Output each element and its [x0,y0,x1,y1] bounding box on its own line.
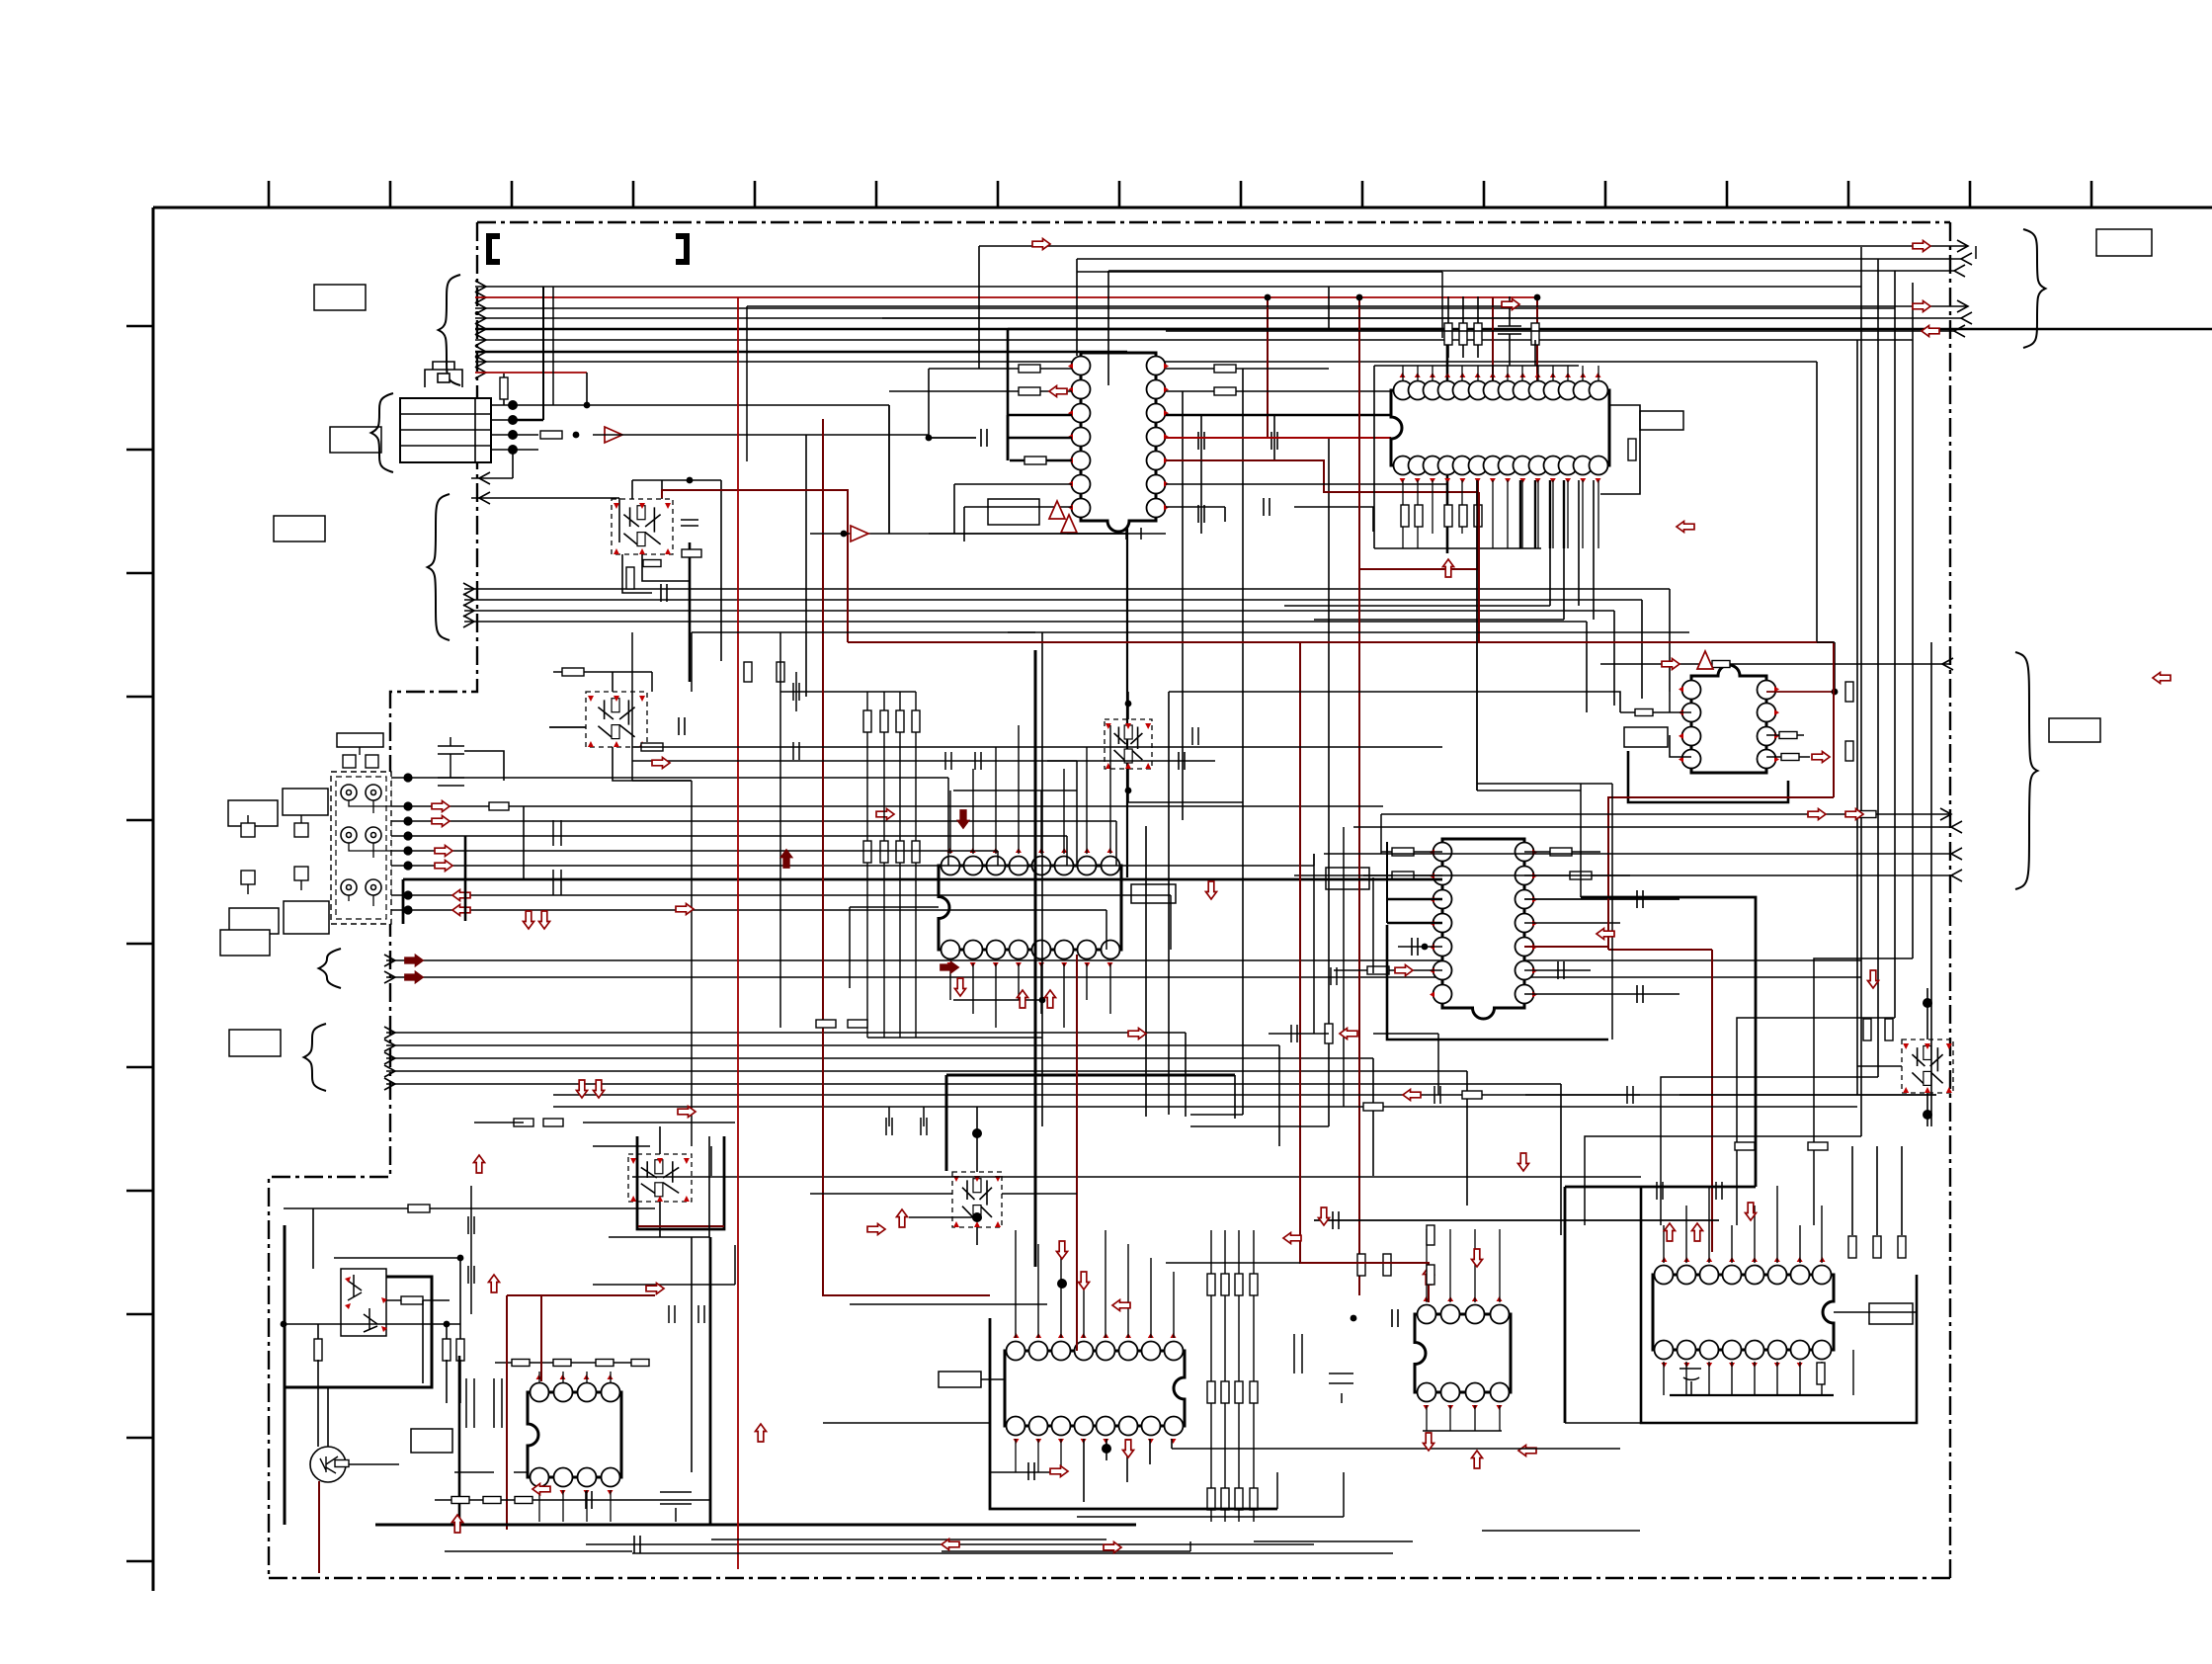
ruler ticks top [269,181,2091,208]
signal arrow [1443,559,1454,577]
wire [990,1471,1062,1473]
resistor [1444,323,1452,345]
connector arrow [1957,300,1968,312]
wire [464,621,1587,623]
signal arrow [1518,1153,1529,1171]
bold center vertical [1034,650,1037,1267]
wire [780,691,916,693]
IC U1 pins [1072,357,1166,518]
wire [1018,963,1020,1000]
buffer arrow [851,526,868,541]
wire [391,865,1314,867]
wire [1334,969,1442,971]
wire [1567,480,1569,548]
junction [403,801,412,810]
wire [495,1362,647,1364]
connector arrow [475,302,486,314]
wire [1477,480,1479,548]
wire [513,419,543,421]
resistor [626,567,634,589]
label box [1131,884,1176,903]
signal arrow [2153,673,2171,684]
capacitor [1028,1462,1034,1480]
wire [1582,480,1584,548]
junction [403,816,412,825]
cap col [553,820,561,895]
Q13 pin ticks [345,1277,387,1332]
wire [1426,1229,1428,1302]
capacitor [1333,1211,1339,1229]
Q1 wiring [642,554,690,581]
junction [1351,1315,1357,1322]
signal arrow [594,1080,605,1098]
signal arrow [1079,1272,1090,1290]
wire [1242,369,1244,1115]
signal arrow [958,810,969,828]
wire [1152,760,1215,762]
op-amp/IC U3 body [1691,665,1766,773]
wire return1 [471,477,513,479]
wire [152,208,155,1591]
wire [1008,414,1072,417]
resistor [896,710,904,732]
signal arrow [1665,1223,1676,1241]
capacitor [1558,961,1564,979]
resistor [1779,732,1797,739]
wire [889,390,1072,392]
junction [1356,294,1363,301]
wire jog [1661,1077,1878,1225]
transistor Q12 circle [310,1447,346,1482]
buffer arrow [1061,515,1077,533]
connector arrow [463,583,474,595]
resistor [489,802,509,810]
wire [503,374,505,377]
connector arrow [463,594,474,606]
wire [1284,605,1550,607]
resistor [1214,387,1236,395]
resistor [451,1497,469,1504]
resistor [641,743,663,751]
signal arrow [452,890,470,901]
None [479,492,490,504]
wire [1314,1219,1719,1221]
resistor [1024,457,1046,464]
connector arrow [384,1027,395,1039]
capacitor [1637,890,1643,908]
junction [1125,788,1132,794]
junction [1534,294,1541,301]
transistor pair Q13/Q14 box [341,1269,386,1336]
wire [317,1360,319,1447]
op-amp/IC U9 body [1653,1275,1834,1350]
wire [1374,547,1541,549]
wire [1402,480,1404,548]
ruler ticks left [126,326,153,1561]
wire [1499,1405,1501,1431]
wire [1210,1230,1212,1522]
resistor [1474,323,1482,345]
wire [391,805,1383,807]
wire [618,498,620,542]
wire [1172,1448,1620,1450]
brace [2023,229,2045,348]
wire [317,1324,319,1340]
resistor [540,431,562,439]
resistor [1845,682,1853,702]
wire [513,404,889,406]
wire [1353,826,1951,828]
signal arrow [432,801,450,812]
wire [1040,963,1042,1014]
wire [1166,414,1447,417]
wire [513,449,538,451]
wire [1449,1405,1451,1431]
wire [1578,480,1580,606]
resistor [1863,1019,1871,1040]
wire [1363,874,1442,876]
Q12 glyph [320,1456,338,1473]
wire [1586,622,1588,712]
wire [334,1257,460,1259]
transistor pair Q1/Q2 [612,499,673,554]
signal arrow [1403,1090,1421,1101]
wire [523,806,525,879]
connector arrow [1961,312,1972,324]
switch stubs [248,815,301,894]
wire [1492,366,1494,381]
label box [330,427,381,453]
wire [386,1032,1186,1034]
connector CN1 body [400,398,491,462]
wire [1417,480,1419,548]
U8 caps left [1294,1334,1353,1403]
brace [371,393,393,472]
wire [1560,1084,1562,1235]
resistor [456,1339,464,1361]
resistor [863,710,871,732]
wire [720,480,722,661]
resistor [816,1020,836,1028]
wire [1171,1439,1173,1449]
junction [972,1212,982,1222]
signal arrow [435,861,452,872]
label box [284,901,329,934]
wire [1776,1362,1778,1395]
wire [1447,296,1449,358]
Q12 wires [327,1387,329,1447]
junction [1923,998,1932,1008]
wire [1077,258,1961,260]
wire [435,1499,711,1501]
wire [1613,611,1615,706]
wire [1417,366,1419,381]
signal arrow [452,1515,463,1533]
wire bus red short [475,372,587,374]
wire [691,1237,693,1472]
wire [458,1356,461,1525]
wire [978,246,980,369]
wire [391,894,1171,896]
resistor [1207,1488,1215,1510]
resistor [1019,365,1040,373]
signal arrow [1206,881,1217,899]
transistor pair Q5 [1105,719,1152,769]
Q13 glyphs [348,1275,377,1332]
junction [584,402,591,409]
wire [972,769,974,854]
resistor [408,1205,430,1212]
connector arrow [475,291,486,303]
capacitor [634,1536,640,1553]
wire [1328,287,1330,329]
op-amp/IC U5 body [1442,839,1524,1019]
transistor pair Q6/Q7 [628,1154,692,1202]
wire [1598,366,1599,381]
connector arrow [463,616,474,627]
wire [312,1208,314,1269]
wire jog [1814,958,1913,1225]
signal arrow [1424,1267,1434,1285]
resistor [1221,1488,1229,1510]
signal arrow [1868,970,1879,988]
resistor [1221,1274,1229,1295]
wire [1063,769,1065,854]
wire [1524,851,1600,853]
signal arrow [1845,809,1863,820]
wire [1477,296,1479,358]
wire bus red [475,296,1537,298]
wire [1507,480,1509,548]
wire [542,287,544,420]
wire [1563,548,1565,620]
signal arrow [405,972,423,983]
wire [1821,1206,1823,1263]
signal arrow [867,1224,885,1235]
resistor [643,560,661,567]
wire [953,790,1077,791]
signal arrow [533,1484,550,1495]
signal arrow [1472,1249,1483,1267]
wire [1387,898,1442,901]
junction [841,531,848,538]
resistor [1250,1488,1258,1510]
wire [1799,1362,1801,1395]
signal arrow [1502,299,1519,310]
resistor [896,841,904,863]
wire [1182,391,1184,820]
resistor [1459,323,1467,345]
signal arrow [652,758,670,769]
resistor [1392,872,1414,879]
junction [281,1321,287,1328]
wire return2 [471,497,619,499]
wire [491,419,513,421]
IC U8 pins [1418,1305,1510,1402]
wire [1037,1244,1039,1338]
wire [1168,692,1170,1115]
label box [220,930,270,956]
wire [1083,1272,1085,1338]
signal arrow [1662,659,1679,670]
signal arrow [1913,301,1930,312]
signal arrow [876,809,894,820]
wire [562,1372,564,1383]
bold right2 [1565,1186,1756,1189]
wire [954,483,1072,485]
wire [1398,946,1442,948]
signal arrow [1597,929,1614,940]
resistor [1383,1254,1391,1276]
wire [1776,1186,1778,1263]
wire [860,1193,952,1195]
wire [805,435,807,697]
signal arrow [1128,1029,1146,1040]
connector arrow [475,367,486,378]
connector CN1 rows [400,398,491,462]
wire [1856,340,1858,1095]
resistor [1808,1142,1828,1150]
net red vert x1316 [1300,642,1429,1302]
wire [1766,691,1835,693]
U2 right bracket [1600,405,1640,494]
wire [1374,365,1579,367]
wire [1509,334,1511,366]
junction [1125,701,1132,707]
wire [1860,247,1862,1136]
capacitor [1637,985,1643,1003]
wire [929,437,976,439]
wire [1582,366,1584,381]
net red bottom [1076,955,1078,1351]
switch contacts [241,823,308,884]
capacitor [681,520,698,526]
transistor pair Q11 [1902,1040,1953,1093]
junction [403,831,412,840]
wire [689,542,692,682]
op-amp/IC U2 body [1391,390,1609,465]
junction [1415,1315,1422,1322]
U2 cap [1498,326,1521,334]
wire [1930,642,1932,1126]
resistor [1235,1381,1243,1403]
resistor [1459,505,1467,527]
wire [964,506,1072,508]
resistor [912,841,920,863]
label box [1640,411,1683,430]
resistor [1531,323,1539,345]
wire [1063,963,1065,1028]
signal arrow [1283,1233,1301,1244]
wire [747,305,1968,307]
wire [1294,874,1951,876]
capacitor [1198,432,1204,450]
wire [586,1372,588,1383]
wire [1524,922,1620,924]
resistor [1325,1024,1333,1043]
signal arrow [1123,1440,1134,1457]
wire [708,1136,710,1237]
resistor [500,377,508,399]
texture wires [445,246,1976,1553]
resistor [1207,1274,1215,1295]
wire [1521,480,1523,548]
wire [1641,600,1643,699]
IC U5 pins [1434,843,1534,1004]
resistor [483,1497,501,1504]
jack circles [341,785,381,895]
resistor [401,1296,423,1304]
signal arrow [678,1107,696,1118]
resistor [1444,505,1452,527]
wire [1086,747,1088,854]
net red vert x833 [823,419,909,1295]
None [1942,658,1953,670]
capacitor [1392,1309,1398,1327]
label box [939,1372,981,1387]
bold right [1581,897,1756,1187]
wire [586,1543,1314,1545]
capacitor [981,429,987,447]
signal arrow [942,1539,959,1550]
transistor pair Q3/Q4 [586,692,647,747]
resistor [880,841,888,863]
wire [464,610,1614,612]
wire [386,959,1861,961]
signal arrow [1319,1207,1330,1225]
wire [883,692,885,1038]
wire [1037,1439,1039,1472]
wire [512,450,514,478]
signal arrow [539,911,550,929]
wire [1041,632,1043,1126]
wire bus bold [475,351,1127,354]
wire [1446,480,1448,534]
op-amp/IC U7 body [528,1392,621,1477]
wire [1015,1230,1017,1338]
resistor [443,1339,451,1361]
resistor [1474,505,1482,527]
signal arrow [955,978,966,996]
resistor [1873,1236,1881,1258]
wire bus bold [475,328,2212,331]
label box [314,285,366,310]
label box [1326,868,1369,889]
jack internal wires [349,800,391,906]
junction [403,846,412,855]
signal arrow [1913,241,1930,252]
signal arrow [405,956,423,966]
wire [1670,1394,1834,1396]
wire [1449,1229,1451,1302]
connector arrow [1954,325,1965,337]
wire [1314,619,1564,621]
resistor [1401,505,1409,527]
wire [1387,922,1442,925]
net red vert x747 [737,297,739,1569]
board outline dash-dot left [269,222,477,1578]
resistor [1019,387,1040,395]
signal arrow [435,846,452,857]
resistor [1845,741,1853,761]
wire [1461,366,1463,381]
op-amp/IC U6 body [1005,1351,1185,1426]
wire [1552,480,1554,548]
wire [1477,366,1479,381]
wire [1127,769,1129,802]
wire [915,692,917,1038]
wire [1086,963,1088,1000]
